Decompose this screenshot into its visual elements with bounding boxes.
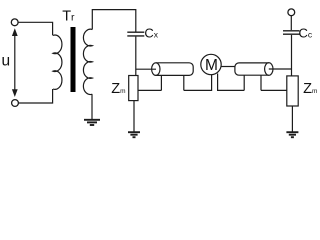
impedance Zm left box [129, 76, 138, 101]
coax2 shield leg left [243, 75, 245, 90]
coax cable 1 body [156, 63, 193, 76]
wire bus coax1 to Zm left box [138, 89, 161, 91]
transformer core Tr [71, 27, 76, 92]
arrowhead down of u [12, 89, 18, 97]
capacitor Cx plates [127, 32, 144, 36]
wire top-left to primary coil [18, 22, 53, 35]
wire bus coax1 to motor frame [184, 75, 212, 91]
motor M circle [201, 54, 221, 74]
inductor secondary winding of Tr [83, 29, 92, 94]
wire Zm left box to ground [133, 101, 135, 132]
wire secondary top to Cx [92, 10, 136, 32]
impedance Zm right box [287, 76, 298, 106]
coax1 shield leg right [183, 75, 185, 90]
coax cable 2 right end cap ellipse [265, 63, 273, 76]
coax cable 2 body [235, 63, 269, 75]
wire bus coax2 to Zm right box [261, 89, 287, 91]
svg-text:Cx: Cx [144, 25, 158, 40]
coax1 shield leg left [160, 75, 162, 90]
svg-text:M: M [205, 57, 218, 74]
wire secondary bottom to ground [91, 94, 93, 119]
coax2 shield leg right [260, 75, 262, 90]
terminal top-left [11, 19, 18, 26]
ground symbol below secondary [84, 120, 100, 125]
terminal top-right [288, 9, 295, 16]
wire junction to coax1 left end [136, 68, 156, 70]
terminal bottom-left [12, 100, 19, 107]
ground symbol below Zm left [128, 132, 140, 137]
wire Zm right box to ground [291, 106, 293, 132]
ground symbol below Zm right [286, 132, 298, 137]
svg-text:Zm: Zm [303, 81, 317, 97]
wire terminal to Cc [290, 16, 292, 30]
svg-text:u: u [2, 53, 11, 70]
coax cable 1 left end cap ellipse [152, 63, 160, 76]
wire Cc to junction and Zm right box [291, 35, 293, 76]
wire Cx to junction and Zm box [135, 37, 137, 76]
wire motor to coax2 [221, 66, 235, 68]
svg-text:Tr: Tr [62, 9, 75, 25]
inductor primary winding of Tr [53, 35, 62, 89]
capacitor Cc plates [283, 31, 300, 34]
svg-text:Zm: Zm [111, 81, 125, 97]
voltage arrow u (double-headed) [14, 35, 16, 92]
arrowhead up of u [12, 28, 18, 36]
wire motor frame to coax2 bus [218, 74, 245, 91]
wire primary bottom to terminal [19, 89, 53, 103]
wire coax2 to junction right [269, 68, 292, 70]
svg-text:Cc: Cc [299, 25, 313, 40]
